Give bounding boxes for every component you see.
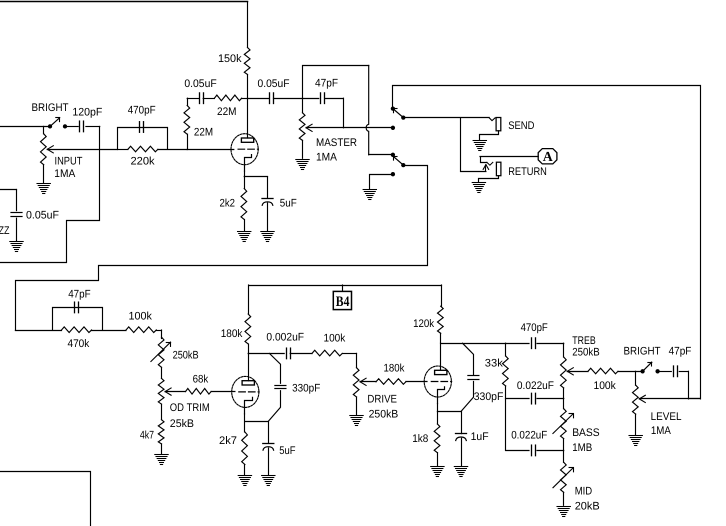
svg-text:180k: 180k <box>384 363 405 375</box>
svg-text:B4: B4 <box>336 294 350 310</box>
svg-text:5uF: 5uF <box>280 198 297 210</box>
svg-text:25kB: 25kB <box>170 418 194 430</box>
svg-text:47pF: 47pF <box>315 77 338 89</box>
svg-text:TREB: TREB <box>572 335 595 347</box>
svg-text:BRIGHT: BRIGHT <box>32 102 69 114</box>
svg-text:1MA: 1MA <box>651 425 672 437</box>
svg-text:1k8: 1k8 <box>412 433 428 445</box>
svg-text:OD TRIM: OD TRIM <box>170 402 210 414</box>
svg-text:5uF: 5uF <box>279 445 296 457</box>
svg-text:0.05uF: 0.05uF <box>26 210 59 222</box>
svg-text:BASS: BASS <box>572 427 600 439</box>
svg-text:68k: 68k <box>193 374 209 386</box>
svg-text:120k: 120k <box>413 318 434 330</box>
svg-text:MID: MID <box>575 486 593 498</box>
svg-text:22M: 22M <box>194 127 213 139</box>
svg-text:250kB: 250kB <box>369 408 399 420</box>
svg-text:100k: 100k <box>129 311 153 323</box>
svg-text:22M: 22M <box>217 106 237 118</box>
svg-text:47pF: 47pF <box>669 346 692 358</box>
svg-text:0.022uF: 0.022uF <box>517 380 554 392</box>
svg-text:0.05uF: 0.05uF <box>258 78 290 90</box>
svg-text:250kB: 250kB <box>173 350 199 362</box>
svg-text:2k7: 2k7 <box>219 435 237 447</box>
svg-text:150k: 150k <box>218 53 242 65</box>
svg-text:1uF: 1uF <box>471 431 489 443</box>
svg-text:220k: 220k <box>131 156 156 168</box>
svg-text:330pF: 330pF <box>474 391 504 403</box>
svg-text:MASTER: MASTER <box>316 137 357 149</box>
svg-text:250kB: 250kB <box>572 347 599 359</box>
svg-text:A: A <box>543 149 553 164</box>
svg-text:330pF: 330pF <box>292 383 320 395</box>
svg-text:0.05uF: 0.05uF <box>184 78 217 90</box>
svg-text:100k: 100k <box>324 333 346 345</box>
svg-text:20kB: 20kB <box>575 501 600 513</box>
svg-text:4k7: 4k7 <box>140 429 154 441</box>
svg-text:470pF: 470pF <box>521 322 548 334</box>
svg-text:2k2: 2k2 <box>220 198 236 210</box>
svg-text:120pF: 120pF <box>72 107 102 119</box>
svg-text:LEVEL: LEVEL <box>651 411 682 423</box>
svg-text:SEND: SEND <box>508 120 534 132</box>
svg-text:ZZ: ZZ <box>0 225 10 237</box>
svg-text:47pF: 47pF <box>68 288 91 300</box>
svg-text:100k: 100k <box>594 380 617 392</box>
svg-text:1MA: 1MA <box>316 152 338 164</box>
svg-text:0.022uF: 0.022uF <box>511 430 547 442</box>
svg-text:DRIVE: DRIVE <box>367 394 397 406</box>
svg-text:0.002uF: 0.002uF <box>266 332 304 344</box>
svg-text:1MB: 1MB <box>572 442 592 454</box>
svg-text:RETURN: RETURN <box>508 166 547 178</box>
svg-text:33k: 33k <box>485 357 503 369</box>
svg-text:INPUT: INPUT <box>55 155 83 167</box>
svg-text:BRIGHT: BRIGHT <box>624 346 661 358</box>
svg-text:470k: 470k <box>68 338 90 350</box>
svg-text:180k: 180k <box>221 328 243 340</box>
svg-text:1MA: 1MA <box>54 168 76 180</box>
svg-text:470pF: 470pF <box>128 105 156 117</box>
